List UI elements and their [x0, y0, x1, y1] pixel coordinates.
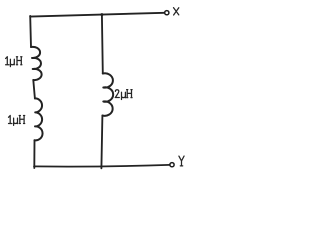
label X	[174, 8, 179, 15]
wire top (from top-left corner to terminal X)	[30, 13, 164, 17]
wire middle lower (L3 down to bottom wire)	[101, 116, 102, 169]
wire left lower (L2 down to bottom-left corner)	[33, 140, 35, 168]
wire middle upper (junction down to L3)	[101, 15, 104, 74]
label 1uH for L1	[6, 57, 22, 67]
inductor L3 coil (2uH middle)	[102, 73, 113, 116]
node junction top (middle branch joins top wire)	[100, 13, 103, 16]
inductor L2 coil (1uH lower-left)	[35, 98, 43, 140]
terminal X circle	[165, 11, 169, 15]
inductor L1 coil (1uH upper-left)	[31, 47, 42, 80]
label 1uH for L2	[9, 116, 25, 126]
wire left upper (corner down to L1)	[29, 16, 32, 47]
wire bottom (bottom-left corner to terminal Y)	[34, 165, 170, 167]
wire left middle (between L1 and L2)	[33, 80, 35, 98]
terminal Y circle	[170, 163, 174, 167]
label 2uH for L3	[115, 90, 132, 100]
label Y	[179, 156, 184, 166]
